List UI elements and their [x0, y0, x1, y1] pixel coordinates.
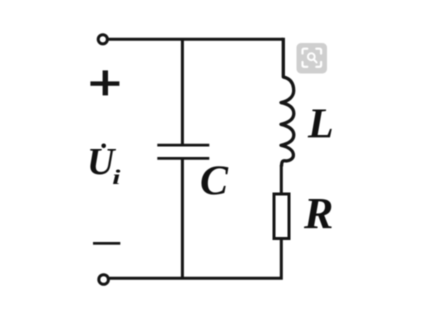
- wire capacitor branch upper: [181, 39, 184, 144]
- minus polarity sign: [93, 242, 120, 245]
- svg-text:L: L: [307, 102, 334, 148]
- capacitor C plates: [157, 145, 209, 158]
- svg-text:R: R: [303, 189, 333, 238]
- svg-text:C: C: [200, 158, 229, 204]
- inductor L coil with right branch top vertical: [281, 38, 294, 167]
- plus polarity sign: [90, 81, 119, 85]
- input terminal bottom: [99, 275, 109, 285]
- wire resistor down and bottom horizontal to input terminal: [110, 239, 282, 279]
- watermark icon background: [297, 43, 328, 74]
- wire capacitor branch lower: [181, 159, 184, 278]
- wire top horizontal from input terminal to right branch: [108, 38, 284, 41]
- dot above U: [101, 144, 106, 149]
- input terminal top: [98, 35, 107, 44]
- resistor R body: [274, 194, 289, 239]
- watermark icon magnifier: [308, 53, 315, 60]
- wire inductor to resistor: [280, 165, 283, 194]
- svg-text:i: i: [112, 165, 120, 189]
- watermark icon viewfinder brackets: [303, 49, 322, 67]
